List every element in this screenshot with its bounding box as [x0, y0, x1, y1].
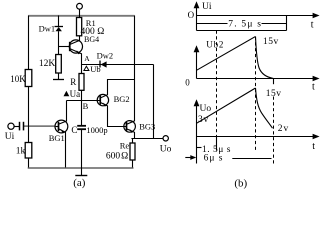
svg-text:t: t: [311, 19, 314, 30]
svg-text:600Ω: 600Ω: [106, 152, 128, 162]
svg-text:6μ s: 6μ s: [204, 153, 224, 163]
svg-text:7. 5μ s: 7. 5μ s: [228, 20, 262, 30]
svg-text:12K: 12K: [39, 59, 56, 69]
svg-text:BG3: BG3: [139, 122, 155, 132]
svg-text:Uo: Uo: [160, 144, 172, 154]
svg-text:0: 0: [185, 77, 190, 87]
svg-text:BG1: BG1: [49, 133, 65, 143]
svg-text:B: B: [83, 101, 89, 111]
svg-text:Uo: Uo: [200, 104, 212, 114]
svg-text:BG4: BG4: [84, 35, 99, 44]
svg-text:(b): (b): [234, 177, 247, 189]
svg-text:Ub2: Ub2: [206, 39, 224, 49]
svg-text:R: R: [70, 77, 76, 87]
svg-text:3v: 3v: [198, 115, 209, 125]
svg-text:Dw2: Dw2: [97, 51, 114, 61]
svg-text:Ub: Ub: [90, 64, 100, 74]
svg-text:C: C: [71, 125, 77, 135]
svg-text:A: A: [84, 54, 90, 63]
svg-text:BG2: BG2: [114, 94, 130, 104]
svg-text:1000p: 1000p: [86, 125, 107, 135]
svg-text:Re: Re: [120, 140, 130, 150]
svg-text:Dw1: Dw1: [39, 23, 56, 33]
svg-text:Ui: Ui: [202, 2, 212, 12]
svg-text:2v: 2v: [278, 124, 290, 134]
svg-text:1k: 1k: [16, 147, 26, 157]
svg-text:t: t: [312, 82, 315, 93]
svg-text:10K: 10K: [10, 74, 26, 84]
svg-text:Ui: Ui: [5, 132, 15, 142]
svg-text:O: O: [188, 10, 195, 20]
svg-text:Ua: Ua: [70, 89, 81, 99]
svg-text:(a): (a): [73, 177, 86, 189]
svg-text:t: t: [312, 141, 315, 152]
svg-text:15v: 15v: [266, 89, 282, 99]
svg-text:15v: 15v: [263, 37, 279, 47]
